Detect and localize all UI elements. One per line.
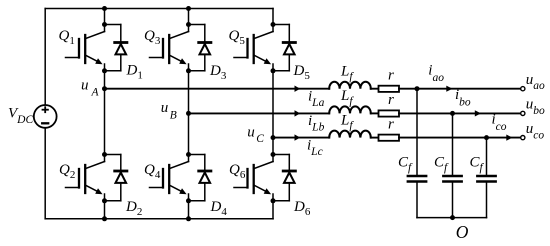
wire: phase B between Lf and r — [371, 112, 379, 114]
svg-text:uao: uao — [526, 72, 545, 92]
svg-text:D6: D6 — [293, 199, 311, 218]
junction: Q1 emitter node — [102, 68, 107, 73]
svg-text:D1: D1 — [126, 63, 143, 82]
wire: top DC bus — [45, 8, 273, 10]
svg-text:Cf: Cf — [470, 155, 485, 175]
junction: Q3 top node — [186, 22, 191, 27]
junction: Q6 top node — [271, 152, 276, 157]
svg-text:Q4: Q4 — [144, 162, 161, 181]
svg-text:Lf: Lf — [340, 63, 354, 83]
transistor Q3 — [150, 25, 189, 71]
svg-text:D4: D4 — [210, 199, 228, 218]
svg-text:uB: uB — [161, 100, 177, 122]
junction: Q5 top node — [271, 22, 276, 27]
wire: leg A phase node to Q2 — [104, 89, 106, 155]
wire: left DC rail upper — [44, 9, 46, 105]
arrow ico — [506, 135, 512, 141]
svg-text:iLa: iLa — [308, 89, 325, 109]
source VDC — [34, 105, 57, 128]
svg-text:Cf: Cf — [398, 155, 413, 175]
wire: leg B bus to Q3 node — [188, 9, 190, 25]
svg-text:D2: D2 — [125, 199, 142, 218]
junction: Q2 emitter node — [102, 198, 107, 203]
arrow iLa — [295, 86, 301, 92]
wire: Q4 emitter to bottom bus — [188, 201, 190, 219]
junction: Q6 emitter node — [271, 198, 276, 203]
wire: phase C line left — [273, 137, 329, 139]
arrow ibo — [475, 110, 481, 116]
inductor Lf phase C — [329, 131, 371, 138]
svg-text:iLc: iLc — [307, 138, 323, 158]
diode D3 — [189, 25, 211, 71]
svg-text:uco: uco — [526, 121, 545, 141]
wire: bottom DC bus — [45, 218, 273, 220]
resistor r phase A — [379, 86, 400, 92]
junction: Q4 top node — [186, 152, 191, 157]
diode D1 — [105, 25, 127, 71]
svg-text:Lf: Lf — [340, 88, 354, 108]
diode D6 — [273, 155, 295, 201]
arrow iao — [446, 86, 452, 92]
svg-text:VDC: VDC — [8, 106, 33, 127]
svg-text:r: r — [388, 68, 394, 84]
wire: Q2 emitter to bottom bus — [104, 201, 106, 219]
svg-text:Lf: Lf — [340, 113, 354, 133]
diode D4 — [189, 155, 211, 201]
resistor r phase B — [379, 110, 400, 116]
node uC — [271, 135, 276, 140]
wire: phase A between Lf and r — [371, 88, 379, 90]
transistor Q2 — [66, 155, 105, 201]
wire: leg A to phase A node — [104, 71, 106, 89]
transistor Q5 — [234, 25, 273, 71]
diode D2 — [105, 155, 127, 201]
svg-text:ico: ico — [492, 111, 507, 133]
junction: Q3 emitter node — [186, 68, 191, 73]
capacitor Cf phase C — [477, 138, 495, 218]
capacitor Cf phase B — [443, 113, 461, 217]
svg-text:Q6: Q6 — [229, 162, 246, 181]
transistor Q1 — [66, 25, 105, 71]
svg-text:ubo: ubo — [526, 97, 545, 117]
junction: phase C cap tap — [484, 135, 489, 140]
wire: phase C line right — [399, 137, 521, 139]
svg-text:Cf: Cf — [434, 155, 449, 175]
wire: phase B line right — [399, 112, 521, 114]
junction: top bus leg B — [186, 6, 191, 11]
wire: phase A line right — [399, 88, 521, 90]
arrow iLb — [295, 110, 301, 116]
junction: top bus leg A — [102, 6, 107, 11]
wire: phase C between Lf and r — [371, 137, 379, 139]
wire: phase B line left — [189, 112, 330, 114]
terminal ubo — [521, 111, 525, 115]
svg-text:D3: D3 — [209, 63, 227, 82]
svg-text:Q5: Q5 — [229, 28, 246, 47]
svg-text:r: r — [388, 92, 394, 108]
svg-text:iLb: iLb — [308, 113, 325, 133]
svg-text:ibo: ibo — [455, 87, 471, 109]
junction: node O — [450, 215, 455, 220]
capacitor Cf phase A — [408, 89, 426, 218]
wire: leg A bus to Q1 node — [104, 9, 106, 25]
svg-text:uC: uC — [247, 124, 264, 145]
svg-text:O: O — [456, 222, 469, 241]
svg-text:Q2: Q2 — [59, 162, 75, 181]
inductor Lf phase A — [329, 82, 371, 89]
junction: bottom bus leg B — [186, 216, 191, 221]
junction: bottom bus leg A — [102, 216, 107, 221]
wire: leg C to phase C node — [272, 71, 274, 155]
wire: leg B to phase B node — [188, 71, 190, 155]
svg-text:r: r — [388, 117, 394, 133]
svg-text:Q1: Q1 — [59, 28, 75, 47]
junction: Q5 emitter node — [271, 68, 276, 73]
junction: Q4 emitter node — [186, 198, 191, 203]
junction: phase A cap tap — [415, 86, 420, 91]
transistor Q4 — [150, 155, 189, 201]
wire: neutral link — [417, 217, 487, 219]
resistor r phase C — [379, 135, 400, 141]
transistor Q6 — [234, 155, 273, 201]
junction: Q2 top node — [102, 152, 107, 157]
svg-text:iao: iao — [428, 62, 444, 84]
terminal uco — [521, 136, 525, 140]
junction: phase B cap tap — [450, 111, 455, 116]
diode D5 — [273, 25, 295, 71]
svg-text:Q3: Q3 — [144, 28, 161, 47]
junction: Q1 top node — [102, 22, 107, 27]
node uB — [186, 111, 191, 116]
svg-text:D5: D5 — [293, 63, 311, 82]
arrow iLc — [295, 134, 301, 140]
wire: left DC rail lower — [44, 128, 46, 219]
inductor Lf phase B — [329, 106, 371, 113]
terminal uao — [521, 87, 525, 91]
wire: phase A line left — [105, 88, 330, 90]
wire: leg C bus to Q5 node — [272, 9, 274, 25]
node uA — [102, 86, 107, 91]
wire: Q6 emitter to bottom bus — [272, 201, 274, 219]
svg-text:uA: uA — [81, 77, 100, 98]
